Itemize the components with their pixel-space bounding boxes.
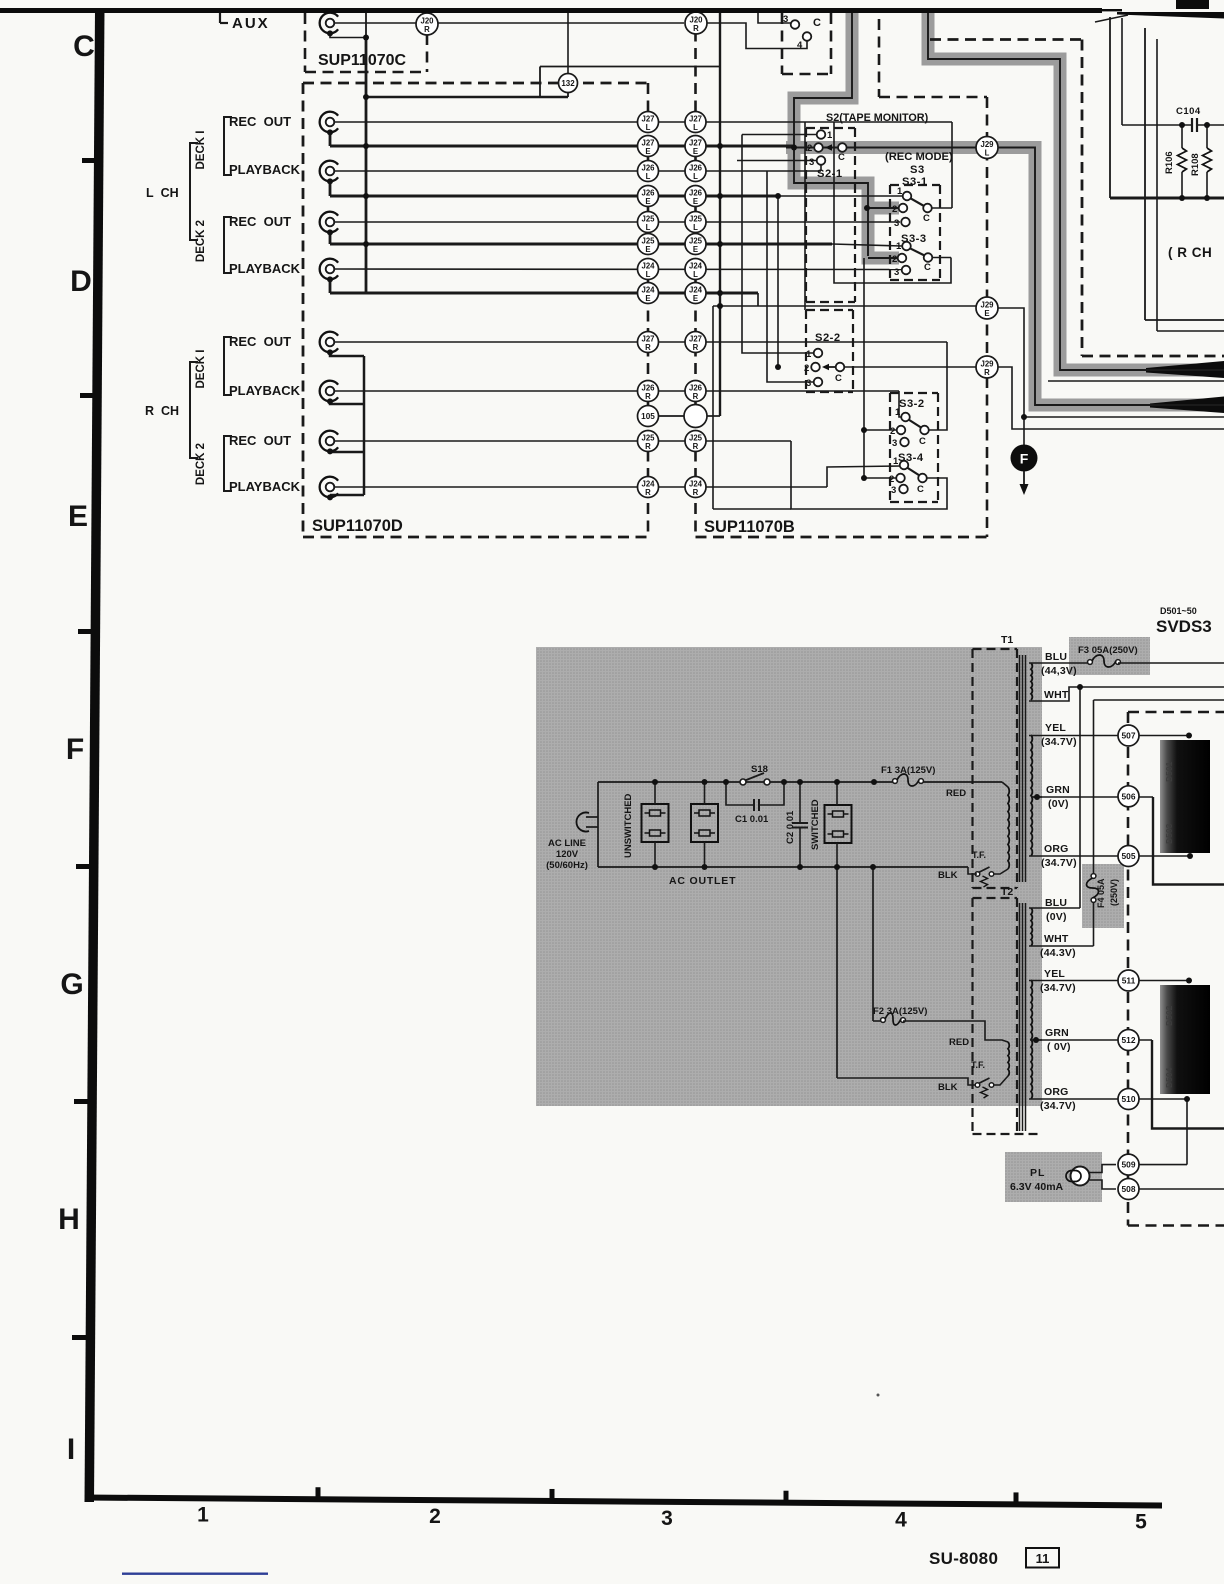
svg-text:2: 2 bbox=[892, 254, 897, 265]
svg-text:E: E bbox=[645, 197, 650, 206]
svg-text:E: E bbox=[693, 147, 698, 156]
svg-text:(0V): (0V) bbox=[1046, 911, 1067, 923]
svg-text:C1 0.01: C1 0.01 bbox=[735, 814, 769, 825]
svg-text:S3: S3 bbox=[910, 164, 925, 176]
svg-text:4: 4 bbox=[895, 1509, 907, 1532]
svg-text:PL: PL bbox=[1030, 1167, 1045, 1179]
svg-text:3: 3 bbox=[891, 485, 896, 496]
svg-text:E: E bbox=[645, 245, 650, 254]
svg-text:512: 512 bbox=[1122, 1035, 1136, 1045]
svg-text:(250V): (250V) bbox=[1109, 879, 1119, 906]
svg-text:WHT: WHT bbox=[1044, 689, 1069, 701]
svg-text:(34.7V): (34.7V) bbox=[1040, 982, 1076, 994]
svg-text:YEL: YEL bbox=[1045, 722, 1066, 734]
svg-text:REC OUT: REC OUT bbox=[229, 334, 291, 349]
svg-text:E: E bbox=[984, 309, 989, 318]
svg-text:3: 3 bbox=[892, 438, 897, 449]
svg-text:SUP11070D: SUP11070D bbox=[312, 517, 403, 535]
svg-text:S2-1: S2-1 bbox=[817, 168, 843, 180]
svg-text:C: C bbox=[924, 262, 931, 273]
svg-text:120V: 120V bbox=[556, 849, 579, 860]
svg-text:505: 505 bbox=[1122, 851, 1136, 861]
svg-text:S3-3: S3-3 bbox=[901, 233, 927, 245]
svg-text:L: L bbox=[693, 172, 698, 181]
svg-text:SWITCHED: SWITCHED bbox=[810, 799, 821, 850]
svg-text:ORG: ORG bbox=[1044, 1086, 1069, 1098]
svg-text:(44,3V): (44,3V) bbox=[1041, 665, 1077, 677]
svg-text:3: 3 bbox=[894, 218, 899, 229]
svg-text:DECK I: DECK I bbox=[195, 350, 207, 389]
svg-text:3: 3 bbox=[809, 157, 814, 168]
svg-text:R: R bbox=[693, 343, 699, 352]
svg-text:AUX: AUX bbox=[232, 15, 270, 32]
svg-text:6.3V 40mA: 6.3V 40mA bbox=[1010, 1181, 1064, 1193]
svg-text:DECK I: DECK I bbox=[195, 131, 207, 170]
svg-text:REC OUT: REC OUT bbox=[229, 433, 291, 448]
svg-text:L: L bbox=[646, 223, 651, 232]
svg-text:C: C bbox=[73, 30, 95, 63]
svg-text:507: 507 bbox=[1122, 731, 1136, 741]
svg-text:YEL: YEL bbox=[1044, 968, 1065, 980]
svg-text:2: 2 bbox=[892, 204, 897, 215]
svg-text:508: 508 bbox=[1122, 1184, 1136, 1194]
svg-text:PLAYBACK: PLAYBACK bbox=[229, 479, 301, 494]
svg-text:E: E bbox=[693, 245, 698, 254]
svg-text:F2 3A(125V): F2 3A(125V) bbox=[873, 1006, 927, 1017]
svg-text:(34.7V): (34.7V) bbox=[1040, 1100, 1076, 1112]
svg-text:E: E bbox=[693, 294, 698, 303]
svg-text:D501~50: D501~50 bbox=[1160, 606, 1197, 616]
svg-text:F3 05A(250V): F3 05A(250V) bbox=[1078, 645, 1138, 656]
svg-text:C: C bbox=[838, 152, 845, 163]
svg-text:D: D bbox=[70, 265, 92, 298]
svg-text:1: 1 bbox=[896, 241, 902, 252]
svg-text:506: 506 bbox=[1122, 791, 1136, 801]
svg-text:E: E bbox=[645, 294, 650, 303]
svg-text:L: L bbox=[693, 223, 698, 232]
svg-text:C: C bbox=[917, 484, 924, 495]
svg-text:2: 2 bbox=[429, 1505, 441, 1528]
svg-text:(34.7V): (34.7V) bbox=[1041, 736, 1077, 748]
svg-text:S3-4: S3-4 bbox=[898, 452, 924, 464]
svg-text:R: R bbox=[693, 488, 699, 497]
svg-text:PLAYBACK: PLAYBACK bbox=[229, 261, 301, 276]
svg-text:L: L bbox=[646, 172, 651, 181]
svg-text:11: 11 bbox=[1036, 1551, 1050, 1566]
svg-text:(0V): (0V) bbox=[1048, 798, 1069, 810]
svg-text:ORG: ORG bbox=[1044, 843, 1069, 855]
svg-text:R: R bbox=[645, 343, 651, 352]
svg-text:D502: D502 bbox=[1164, 1005, 1174, 1026]
svg-text:AC LINE: AC LINE bbox=[548, 838, 586, 849]
svg-text:511: 511 bbox=[1122, 976, 1136, 986]
svg-text:S2(TAPE MONITOR): S2(TAPE MONITOR) bbox=[826, 112, 929, 124]
svg-text:2: 2 bbox=[889, 474, 894, 485]
svg-text:RED: RED bbox=[949, 1037, 969, 1048]
svg-text:UNSWITCHED: UNSWITCHED bbox=[623, 793, 634, 858]
svg-text:1: 1 bbox=[827, 130, 833, 141]
svg-text:L: L bbox=[985, 148, 990, 157]
svg-text:C: C bbox=[813, 17, 821, 29]
svg-text:R: R bbox=[693, 24, 699, 33]
svg-text:(44.3V): (44.3V) bbox=[1040, 947, 1076, 959]
svg-text:3: 3 bbox=[783, 14, 788, 25]
svg-text:S18: S18 bbox=[751, 764, 768, 775]
svg-text:RED: RED bbox=[946, 788, 966, 799]
svg-text:PLAYBACK: PLAYBACK bbox=[229, 162, 301, 177]
svg-text:L CH: L CH bbox=[146, 186, 179, 200]
svg-text:R CH: R CH bbox=[145, 404, 179, 418]
svg-text:(REC MODE): (REC MODE) bbox=[885, 151, 953, 163]
svg-text:5: 5 bbox=[1135, 1510, 1147, 1533]
svg-text:SVDS3: SVDS3 bbox=[1156, 617, 1212, 636]
svg-text:1: 1 bbox=[197, 1503, 209, 1526]
svg-text:WHT: WHT bbox=[1044, 933, 1069, 945]
svg-text:1: 1 bbox=[897, 186, 903, 197]
svg-text:509: 509 bbox=[1122, 1160, 1136, 1170]
svg-text:DECK 2: DECK 2 bbox=[195, 443, 207, 485]
svg-text:105: 105 bbox=[641, 412, 655, 421]
svg-text:F1 3A(125V): F1 3A(125V) bbox=[881, 765, 935, 776]
svg-text:R: R bbox=[693, 392, 699, 401]
svg-text:L: L bbox=[693, 123, 698, 132]
svg-text:S2-2: S2-2 bbox=[815, 332, 841, 344]
svg-text:S3-1: S3-1 bbox=[902, 176, 928, 188]
svg-text:R: R bbox=[424, 25, 430, 34]
svg-text:T.F.: T.F. bbox=[971, 1060, 985, 1070]
svg-text:2: 2 bbox=[890, 426, 895, 437]
svg-text:D503: D503 bbox=[1164, 823, 1174, 844]
svg-text:H: H bbox=[58, 1203, 80, 1236]
svg-text:C104: C104 bbox=[1176, 106, 1201, 117]
svg-text:SUP11070B: SUP11070B bbox=[704, 518, 795, 536]
svg-text:R108: R108 bbox=[1190, 153, 1201, 176]
svg-text:BLU: BLU bbox=[1045, 897, 1067, 909]
svg-text:F: F bbox=[1020, 451, 1029, 467]
svg-text:R: R bbox=[645, 392, 651, 401]
svg-text:F: F bbox=[66, 733, 84, 766]
svg-text:L: L bbox=[646, 270, 651, 279]
svg-text:I: I bbox=[67, 1433, 75, 1466]
svg-text:R: R bbox=[645, 488, 651, 497]
svg-text:C: C bbox=[923, 213, 930, 224]
svg-text:BLK: BLK bbox=[938, 1082, 958, 1093]
svg-text:SU-8080: SU-8080 bbox=[929, 1549, 998, 1568]
svg-text:AC OUTLET: AC OUTLET bbox=[669, 875, 736, 887]
svg-text:BLK: BLK bbox=[938, 870, 958, 881]
svg-text:R: R bbox=[984, 368, 990, 377]
svg-text:3: 3 bbox=[661, 1507, 673, 1530]
svg-text:1: 1 bbox=[895, 407, 901, 418]
svg-text:BLU: BLU bbox=[1045, 651, 1067, 663]
svg-text:(34.7V): (34.7V) bbox=[1041, 857, 1077, 869]
svg-text:T1: T1 bbox=[1001, 634, 1013, 646]
svg-text:E: E bbox=[693, 197, 698, 206]
svg-text:L: L bbox=[646, 123, 651, 132]
svg-text:1: 1 bbox=[806, 349, 812, 360]
svg-text:3: 3 bbox=[806, 378, 811, 389]
svg-text:E: E bbox=[68, 500, 88, 533]
svg-text:2: 2 bbox=[804, 363, 809, 374]
svg-text:R: R bbox=[645, 442, 651, 451]
svg-text:T2: T2 bbox=[1001, 886, 1013, 898]
svg-text:( R CH: ( R CH bbox=[1168, 245, 1212, 260]
svg-text:510: 510 bbox=[1122, 1094, 1136, 1104]
svg-text:T.F.: T.F. bbox=[972, 850, 986, 860]
svg-text:4: 4 bbox=[797, 40, 803, 51]
svg-text:R: R bbox=[693, 442, 699, 451]
svg-text:F4 05A: F4 05A bbox=[1096, 878, 1106, 908]
svg-text:( 0V): ( 0V) bbox=[1047, 1041, 1071, 1053]
svg-text:E: E bbox=[645, 147, 650, 156]
svg-text:REC OUT: REC OUT bbox=[229, 214, 291, 229]
svg-text:C: C bbox=[919, 436, 926, 447]
svg-text:L: L bbox=[693, 270, 698, 279]
svg-text:PLAYBACK: PLAYBACK bbox=[229, 383, 301, 398]
svg-text:S3-2: S3-2 bbox=[899, 398, 925, 410]
svg-text:C: C bbox=[835, 373, 842, 384]
svg-text:G: G bbox=[60, 968, 83, 1001]
svg-text:1: 1 bbox=[893, 456, 899, 467]
svg-text:D501: D501 bbox=[1164, 761, 1174, 782]
svg-text:132: 132 bbox=[561, 79, 575, 88]
svg-text:C2 0.01: C2 0.01 bbox=[785, 810, 796, 844]
svg-text:3: 3 bbox=[894, 267, 899, 278]
svg-text:D504: D504 bbox=[1164, 1067, 1174, 1088]
svg-text:2: 2 bbox=[807, 143, 812, 154]
svg-text:REC OUT: REC OUT bbox=[229, 114, 291, 129]
svg-text:(50/60Hz): (50/60Hz) bbox=[546, 860, 588, 871]
svg-text:SUP11070C: SUP11070C bbox=[318, 52, 407, 69]
svg-text:GRN: GRN bbox=[1046, 784, 1070, 796]
svg-text:GRN: GRN bbox=[1045, 1027, 1069, 1039]
svg-text:R106: R106 bbox=[1164, 151, 1175, 174]
